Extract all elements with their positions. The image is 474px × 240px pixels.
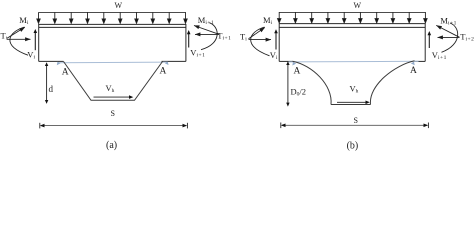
svg-text:Vh: Vh [106,83,115,94]
svg-text:A: A [160,67,167,77]
load arrows (b) [278,12,428,23]
blue arrowhead right (b) [411,62,415,66]
beam outline (a) [39,24,186,62]
shear arrow Vi+1 (b) [428,35,430,49]
svg-text:A: A [294,67,301,77]
shear trapezoid (a) [64,62,163,101]
svg-text:A: A [410,66,417,76]
svg-text:d: d [49,84,54,94]
svg-text:Ti+2: Ti+2 [460,32,474,43]
Vs arrow (a) [94,96,130,98]
blue arrowhead left (b) [292,62,296,66]
svg-text:(a): (a) [106,140,117,151]
blue tie line (b) [289,60,419,63]
dimension S (a) [41,125,186,127]
dimension D0/2 (b) [287,64,289,105]
axis arrow (b right) [438,36,460,38]
svg-text:Vi: Vi [27,50,35,61]
svg-text:Mi+1: Mi+1 [198,15,214,26]
torsion arc Ti (a) [10,27,28,55]
load line (b) [279,11,425,13]
svg-text:Mi: Mi [19,15,29,26]
svg-text:S: S [111,109,115,118]
load arrows (a) [37,12,187,23]
svg-text:D0/2: D0/2 [291,87,307,98]
dimension S (b) [282,124,427,126]
svg-text:Mi: Mi [263,15,273,26]
blue arrowhead right (a) [165,62,169,65]
svg-text:Mi+1: Mi+1 [440,15,456,26]
svg-text:Vi+1: Vi+1 [432,50,447,61]
axis arrow (a left) [7,38,31,40]
blue arrowhead left (a) [57,62,61,65]
dimension d (a) [46,65,48,102]
shear arrow Vi (a) [34,32,36,50]
svg-text:Ti+1: Ti+1 [217,31,231,42]
torsion arc Ti (b) [251,27,270,56]
moment arrow Mi (a) [7,27,25,38]
svg-text:Vh: Vh [350,84,359,95]
shear curve left (b) [293,61,332,104]
load line (a) [39,11,186,13]
beam outline (b) [279,23,425,61]
svg-text:S: S [354,116,358,125]
axis arrow (b left) [249,39,272,41]
shear curve bottom (b) [331,104,371,106]
moment arrow Mi+1 (b) [436,25,459,37]
torsion arc Ti+1 (b) [442,23,458,52]
svg-text:A: A [62,67,69,77]
svg-text:Vi: Vi [270,50,278,61]
svg-text:W: W [115,1,123,10]
axis arrow (a right) [195,33,219,35]
svg-text:Ti: Ti [240,32,247,43]
shear curve right (b) [370,61,414,105]
shear arrow Vi+1 (a) [188,34,190,48]
shear arrow Vi (b) [275,33,277,50]
torsion arc Ti+1 (a) [201,23,217,50]
svg-text:(b): (b) [347,141,359,151]
Vs arrow (b) [337,101,366,103]
moment arrow Mi+1 (a) [194,26,219,35]
svg-text:W: W [354,1,362,10]
blue tie line (a) [58,61,168,64]
svg-text:Ti: Ti [1,31,8,42]
moment arrow Mi (b) [249,28,265,39]
